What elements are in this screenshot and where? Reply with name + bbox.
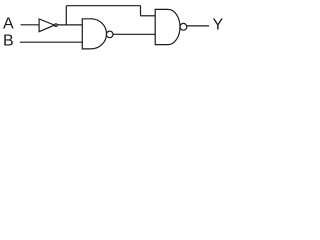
svg-text:A: A [3, 16, 14, 33]
svg-text:Y: Y [213, 16, 224, 33]
svg-text:B: B [3, 33, 14, 50]
